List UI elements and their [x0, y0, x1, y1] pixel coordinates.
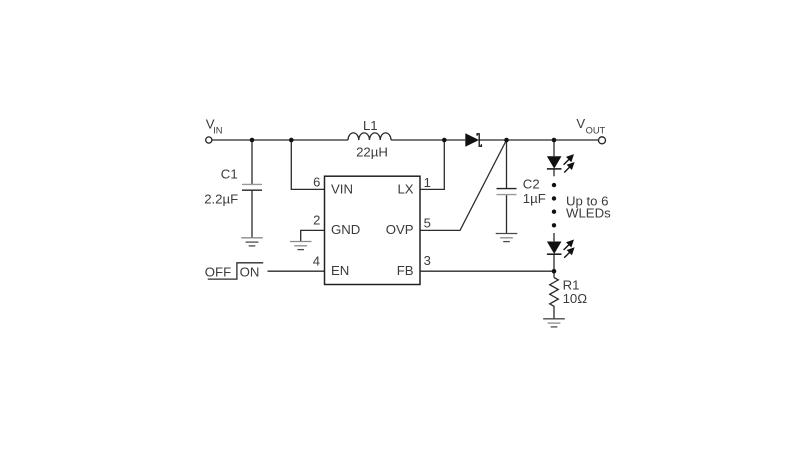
svg-text:10Ω: 10Ω — [563, 291, 588, 306]
svg-text:L1: L1 — [363, 118, 378, 133]
svg-text:OUT: OUT — [586, 126, 606, 136]
svg-text:4: 4 — [313, 254, 320, 269]
svg-text:OVP: OVP — [386, 222, 414, 237]
svg-text:VIN: VIN — [331, 182, 353, 197]
svg-text:IN: IN — [213, 126, 222, 136]
svg-text:V: V — [576, 116, 585, 131]
svg-text:ON: ON — [240, 264, 260, 279]
svg-text:OFF: OFF — [205, 264, 231, 279]
svg-text:22µH: 22µH — [356, 145, 388, 160]
svg-text:WLEDs: WLEDs — [566, 206, 611, 221]
svg-text:FB: FB — [397, 263, 414, 278]
svg-text:1µF: 1µF — [523, 191, 546, 206]
svg-text:3: 3 — [424, 253, 431, 268]
svg-text:C1: C1 — [221, 167, 238, 182]
svg-text:LX: LX — [397, 182, 413, 197]
svg-text:6: 6 — [313, 175, 320, 190]
svg-text:5: 5 — [424, 216, 431, 231]
svg-text:2: 2 — [313, 213, 320, 228]
svg-text:C2: C2 — [523, 177, 540, 192]
svg-text:2.2µF: 2.2µF — [204, 192, 238, 207]
svg-text:EN: EN — [331, 263, 349, 278]
svg-text:GND: GND — [331, 222, 360, 237]
svg-text:1: 1 — [424, 175, 431, 190]
